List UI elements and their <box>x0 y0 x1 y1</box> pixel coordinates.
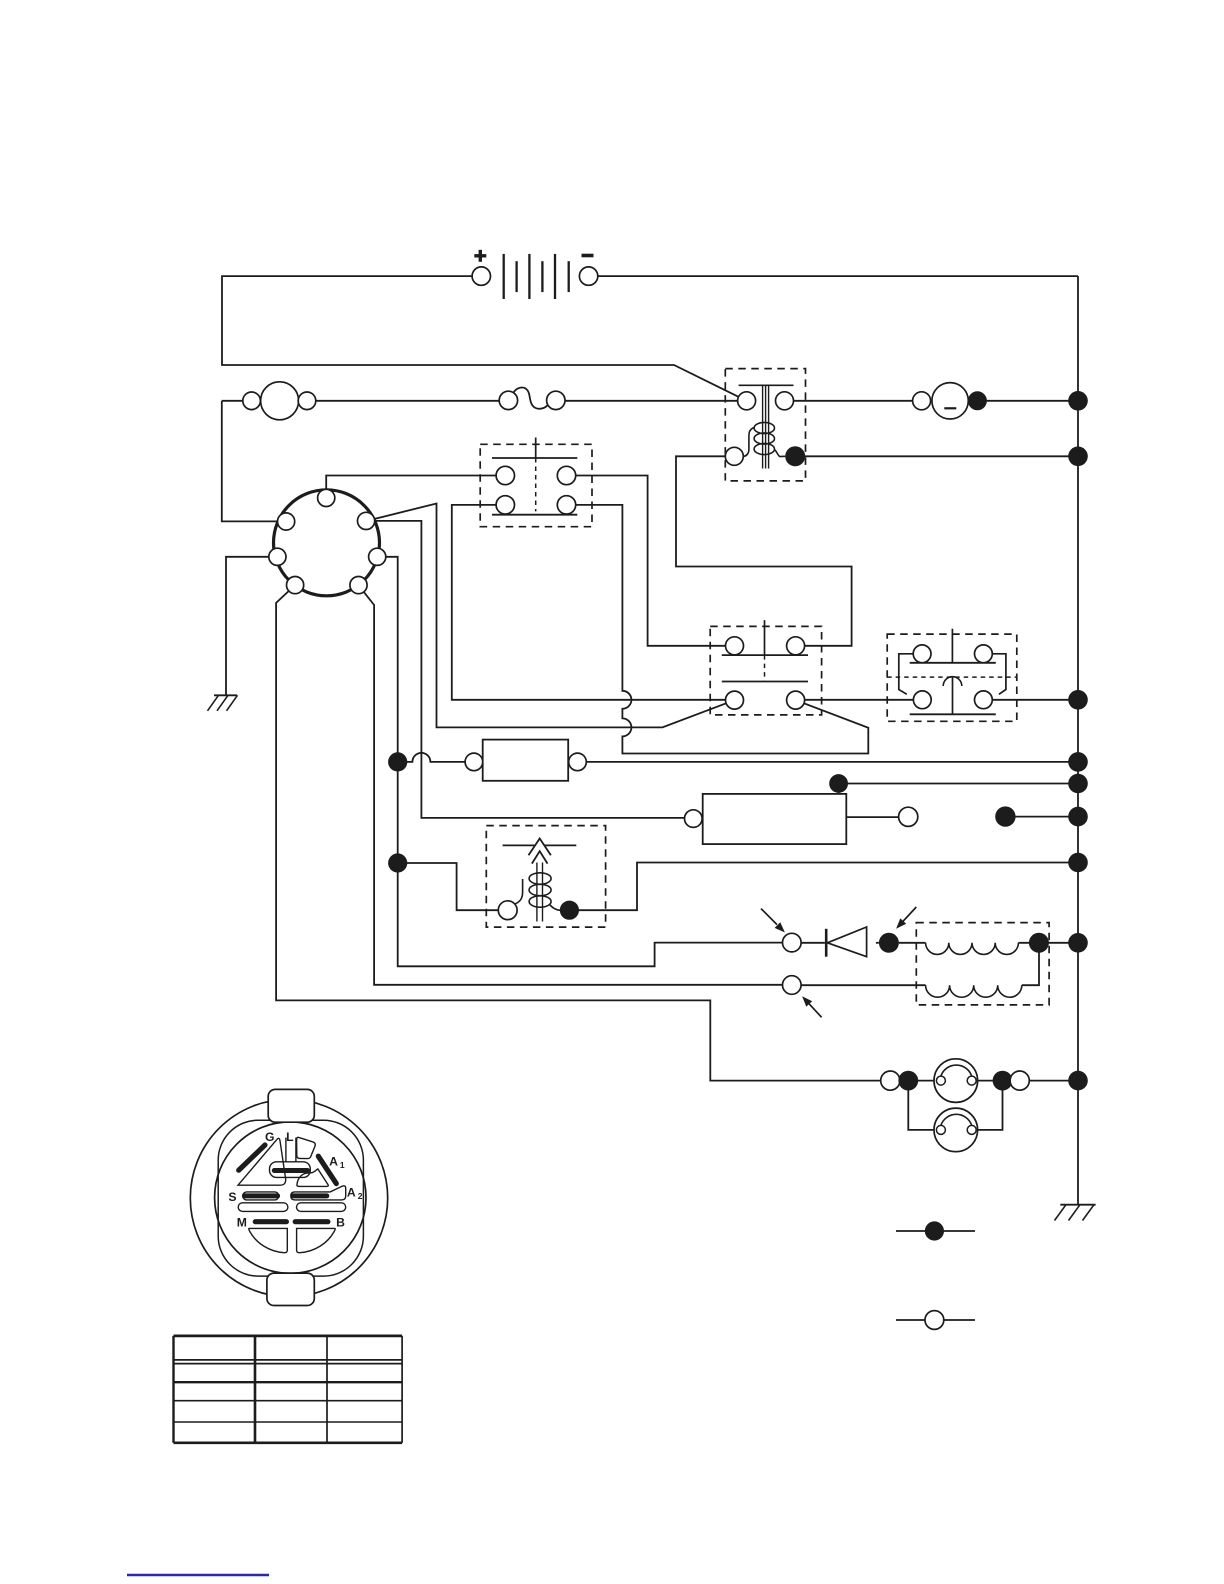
svg-text:A: A <box>329 1154 338 1168</box>
svg-text:S: S <box>228 1190 236 1204</box>
svg-text:1: 1 <box>340 1160 345 1170</box>
svg-text:A: A <box>347 1186 356 1200</box>
svg-text:B: B <box>336 1215 345 1229</box>
svg-text:G: G <box>265 1130 274 1144</box>
svg-text:M: M <box>237 1215 247 1229</box>
svg-text:2: 2 <box>358 1191 363 1201</box>
svg-text:L: L <box>286 1130 294 1144</box>
